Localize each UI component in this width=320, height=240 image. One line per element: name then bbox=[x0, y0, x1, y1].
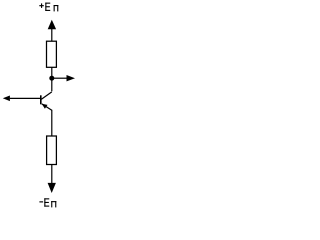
collector lead bbox=[41, 92, 51, 99]
label -Ep (letter E) bbox=[44, 198, 49, 206]
emitter arrowhead bbox=[42, 104, 48, 109]
base wire bbox=[10, 97, 40, 99]
wire output bbox=[52, 77, 67, 79]
wire emitter to resistor R2 bbox=[51, 110, 53, 136]
arrow input left bbox=[3, 96, 10, 102]
emitter lead bbox=[42, 104, 52, 110]
resistor R2 bbox=[47, 136, 57, 165]
label -Ep (minus sign) bbox=[39, 201, 43, 202]
label -Ep (letter p) bbox=[51, 201, 56, 207]
label +Ep (plus sign) bbox=[39, 3, 44, 8]
node junction dot bbox=[49, 76, 54, 81]
arrow down to -Ep bbox=[48, 183, 56, 193]
resistor R1 bbox=[47, 41, 57, 67]
transistor VT1 base bar bbox=[40, 95, 42, 104]
label +Ep (letter p) bbox=[54, 5, 59, 11]
label +Ep (letter E) bbox=[45, 3, 50, 11]
wire R2 to arrow bbox=[51, 165, 53, 185]
arrow output right bbox=[67, 75, 76, 81]
arrow up to +Ep bbox=[48, 20, 56, 29]
wire R1 to collector node bbox=[51, 67, 53, 91]
wire arrow to resistor R1 bbox=[51, 29, 53, 42]
